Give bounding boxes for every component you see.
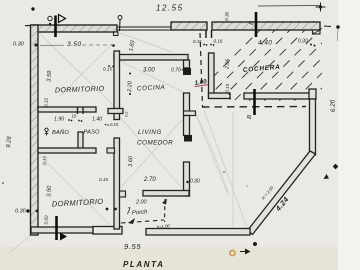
paper tint right	[338, 0, 360, 270]
svg-text:0.15: 0.15	[44, 97, 49, 107]
wall left exterior	[31, 25, 39, 235]
svg-text:0.70: 0.70	[171, 68, 181, 74]
wall center vertical (cocina/dorm, paso, dorm2)	[114, 51, 120, 120]
tick marker above window	[118, 16, 122, 32]
wall cochera L vertical	[209, 53, 215, 97]
faint curve patio	[196, 115, 228, 193]
svg-text:PASO: PASO	[84, 130, 101, 136]
wall patio top hook	[309, 89, 316, 99]
wall bottom left	[31, 227, 93, 233]
svg-text:B: B	[247, 115, 253, 120]
dot corner right	[336, 25, 340, 29]
svg-text:0.15: 0.15	[225, 83, 231, 93]
wall cocina top interior	[114, 55, 188, 61]
wall cocina right upper	[184, 60, 190, 68]
dashed boundary cochera left	[200, 33, 203, 107]
dim dots dorm2 bottom	[26, 209, 29, 212]
svg-text:0.16: 0.16	[214, 39, 223, 44]
svg-text:12.55: 12.55	[156, 4, 184, 13]
svg-text:0.15: 0.15	[99, 177, 108, 182]
svg-text:3.50: 3.50	[67, 41, 82, 48]
arrow tick 0.70	[182, 68, 186, 71]
cross tick end 12.55	[316, 3, 326, 12]
arrow mark bottom	[240, 249, 251, 255]
dim 3.50 line	[40, 44, 64, 46]
speck left margin	[2, 182, 4, 184]
wall patio top (horizontal)	[244, 93, 310, 99]
window sill bottom dormitorio	[93, 227, 122, 235]
text Porch	[128, 208, 130, 215]
wall center vertical stub below top wall	[114, 32, 119, 36]
speck top-left wall	[36, 45, 37, 46]
paper tint bottom	[0, 247, 360, 270]
svg-text:BAÑO: BAÑO	[52, 129, 69, 136]
door jamb notch dormitorio1	[78, 107, 84, 114]
dim dots bano paso	[68, 119, 82, 122]
wall bano/paso divider	[78, 132, 83, 151]
dot left end 12.55	[31, 7, 34, 10]
svg-text:3.60: 3.60	[128, 155, 134, 167]
text 1.00 red	[194, 78, 208, 87]
svg-text:Porch: Porch	[132, 209, 149, 216]
section marker A bottom: bar	[55, 216, 58, 240]
svg-text:COMEDOR: COMEDOR	[137, 140, 173, 147]
wall cochera L horizontal	[209, 93, 231, 99]
svg-text:2.20: 2.20	[127, 80, 134, 93]
dashed porch vertical	[164, 199, 167, 222]
porch notch on center wall	[120, 191, 126, 197]
svg-text:0.31: 0.31	[193, 39, 202, 44]
section marker A top: flag	[59, 15, 66, 23]
dim dot 3.50 right	[112, 44, 115, 47]
dots after 0.30	[310, 44, 316, 47]
svg-text:0.30: 0.30	[224, 11, 230, 21]
wall patio right	[310, 99, 316, 155]
svg-text:2.00: 2.00	[135, 200, 147, 206]
door jamb block cocina	[183, 68, 191, 75]
dashed porch bottom	[121, 220, 164, 223]
wall living right lower	[184, 162, 190, 196]
orange scribble	[230, 250, 235, 255]
pillar jamb ticks at cochera entry	[206, 30, 212, 38]
svg-text:0.15: 0.15	[110, 122, 119, 127]
porch dashed arrow top	[162, 199, 167, 205]
wall bottom right	[146, 229, 250, 236]
dim dots 2.20	[129, 73, 131, 75]
dim dots 0.31/0.16	[203, 44, 214, 46]
triangle mark	[324, 174, 330, 179]
svg-text:0.60: 0.60	[44, 215, 49, 225]
text BANO	[45, 128, 48, 135]
wall dormitorio1 bottom	[38, 107, 96, 112]
porch dashed arrow	[128, 218, 135, 224]
wall top-left exterior	[25, 25, 117, 32]
stub wall right at living	[184, 111, 196, 116]
wall top middle exterior	[171, 22, 207, 30]
svg-text:0.30: 0.30	[190, 179, 200, 185]
wall end cap top-right	[313, 30, 321, 34]
wall center vertical lower segment	[114, 138, 120, 229]
wall cochera top exterior	[212, 22, 320, 30]
svg-text:3.00: 3.00	[143, 68, 155, 74]
svg-text:0.30: 0.30	[13, 42, 25, 48]
svg-text:PLANTA: PLANTA	[123, 260, 164, 269]
cochera dashed hatch	[178, 10, 360, 112]
window cocina top	[117, 27, 172, 30]
dash near 6.26 corner	[324, 25, 331, 28]
dots near cross	[105, 124, 109, 126]
wall diagonal	[248, 151, 316, 235]
svg-text:0.15: 0.15	[42, 155, 47, 165]
wall living right upper	[184, 93, 190, 113]
svg-text:0.15: 0.15	[103, 67, 112, 72]
svg-text:1.90: 1.90	[54, 117, 64, 123]
svg-text:10: 10	[72, 114, 77, 119]
section marker A top: circle	[48, 16, 52, 20]
dimension line 12.55 right segment	[258, 5, 321, 8]
svg-text:4.40: 4.40	[258, 40, 272, 47]
faint construction lines	[9, 33, 247, 253]
wall bano bottom	[38, 148, 96, 153]
svg-text:9.26: 9.26	[6, 135, 13, 148]
svg-text:2.70: 2.70	[143, 177, 156, 183]
svg-text:6.26: 6.26	[329, 99, 337, 112]
svg-text:2.05: 2.05	[224, 58, 231, 70]
dim dot 0.30 living	[186, 181, 188, 183]
dim dots cocina 0.15	[108, 65, 114, 67]
wall living bottom	[143, 191, 189, 197]
svg-text:COCINA: COCINA	[137, 84, 166, 92]
dots cochera wall end	[229, 93, 232, 100]
svg-text:1.40: 1.40	[92, 117, 102, 123]
section marker A bottom: flag	[60, 233, 67, 241]
svg-text:B: B	[249, 21, 255, 26]
speck mid patio	[246, 185, 248, 187]
paso cross junction stub	[108, 109, 123, 114]
section marker B bottom: bar	[253, 89, 256, 115]
svg-text:LIVING: LIVING	[138, 129, 162, 136]
svg-text:0.30: 0.30	[298, 39, 308, 45]
svg-text:9.55: 9.55	[124, 242, 141, 251]
svg-text:0.30: 0.30	[15, 209, 27, 215]
door jamb block living	[184, 135, 192, 142]
dot bottom near diagonal	[253, 242, 257, 246]
svg-text:3.59: 3.59	[47, 70, 54, 82]
diamond mark	[333, 164, 339, 170]
closet stub dormitorio2	[107, 148, 115, 153]
svg-text:3.50: 3.50	[47, 185, 53, 197]
section marker A top: dot	[49, 23, 51, 25]
dim dot 3.50 left	[34, 43, 37, 46]
faint drop from dot	[337, 29, 340, 41]
section marker A top: bar	[54, 16, 57, 38]
wall living right middle	[184, 116, 190, 136]
dashed boundary cochera bottom	[202, 106, 306, 109]
faint speck dot	[223, 171, 225, 173]
porch dim dots	[106, 208, 109, 211]
section marker B top: bar	[255, 12, 258, 37]
